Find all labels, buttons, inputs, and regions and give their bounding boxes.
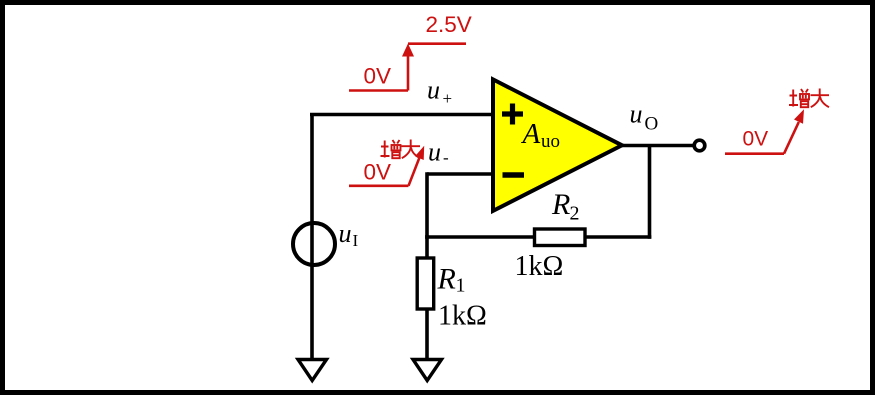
svg-text:-: - xyxy=(443,148,449,167)
svg-text:1: 1 xyxy=(456,275,466,297)
op-amp + input symbol xyxy=(502,104,523,125)
svg-text:I: I xyxy=(353,231,359,250)
red arrowhead diagonal (output) xyxy=(794,109,804,123)
red step waveform (top, u+ drive) low line xyxy=(349,89,408,92)
wire: output to terminal xyxy=(622,144,693,148)
svg-text:+: + xyxy=(443,89,453,108)
label zengda (middle) 增 xyxy=(381,140,401,158)
red step high line xyxy=(408,42,466,45)
wire: u- horizontal into op-amp - xyxy=(427,172,493,176)
red ramp (u- node) base line xyxy=(349,185,409,188)
svg-text:u: u xyxy=(339,219,352,248)
wire: feedback node to R2 left xyxy=(425,235,533,239)
svg-text:uo: uo xyxy=(541,131,560,152)
svg-text:u: u xyxy=(428,138,441,167)
wire: u- vertical down to feedback node xyxy=(425,172,429,239)
svg-text:u: u xyxy=(427,75,440,104)
output terminal circle xyxy=(694,140,705,151)
ground (right, below R1) xyxy=(413,360,442,381)
red ramp diagonal xyxy=(409,157,420,186)
red step vertical rise xyxy=(407,54,410,91)
red ramp diagonal (output) xyxy=(784,122,799,154)
resistor R1 xyxy=(417,258,434,309)
svg-text:u: u xyxy=(630,100,643,129)
svg-text:A: A xyxy=(521,118,541,150)
svg-text:2: 2 xyxy=(570,203,580,225)
red arrowhead up xyxy=(402,44,414,57)
wire: corner up to output xyxy=(648,146,652,239)
svg-text:R: R xyxy=(437,263,456,296)
wire: R2 right to corner xyxy=(587,235,652,239)
op-amp U1 triangle xyxy=(493,79,622,211)
wire: u+ input horizontal from source top to op-amp + xyxy=(310,113,493,117)
svg-text:1kΩ: 1kΩ xyxy=(438,301,487,332)
resistor R2 xyxy=(535,229,586,246)
wire: R1 bottom to ground xyxy=(425,308,429,360)
wire: left vertical through source to ground xyxy=(310,115,314,361)
svg-text:2.5V: 2.5V xyxy=(426,12,472,37)
svg-text:0V: 0V xyxy=(364,63,392,88)
label zengda (right) 大 xyxy=(811,89,830,108)
op-amp - input symbol xyxy=(503,172,525,178)
red arrowhead diagonal (u-) xyxy=(415,146,424,160)
label zengda (middle) 大 xyxy=(402,140,421,159)
ground (left) xyxy=(298,360,327,381)
red ramp (output) base line xyxy=(725,152,784,155)
label zengda (right) 增 xyxy=(789,89,809,107)
svg-text:0V: 0V xyxy=(743,128,769,151)
svg-text:1kΩ: 1kΩ xyxy=(515,251,564,282)
wire: node to R1 top xyxy=(425,235,429,259)
svg-text:R: R xyxy=(551,188,570,221)
svg-text:O: O xyxy=(645,113,659,134)
source uI circle xyxy=(293,223,335,265)
svg-text:0V: 0V xyxy=(364,160,392,185)
